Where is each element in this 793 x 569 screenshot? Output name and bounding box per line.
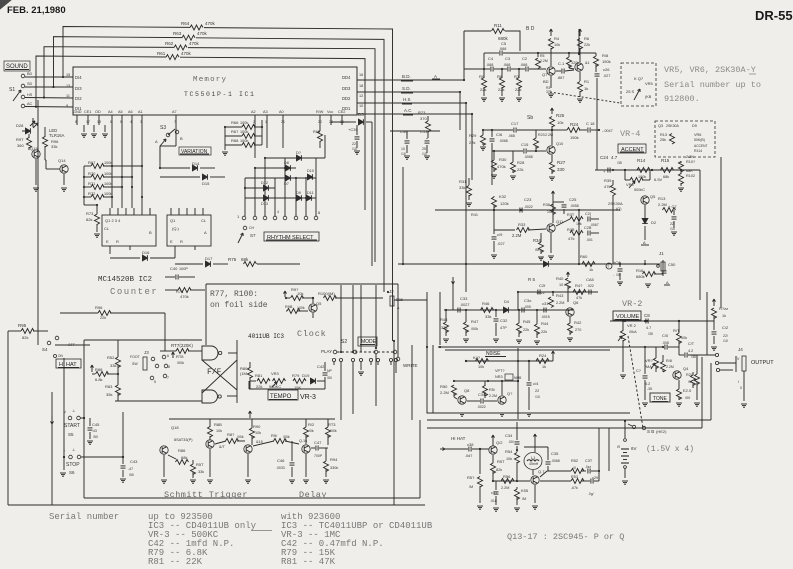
svg-text:R13: R13 [660, 133, 667, 137]
svg-text:Θ: Θ [617, 444, 620, 449]
svg-text:R81: R81 [255, 373, 263, 378]
label TEMPO VR-3 [268, 390, 298, 400]
svg-text:C/0: C/0 [662, 333, 669, 338]
ground r66 cluster [222, 151, 228, 153]
transistor Q12 [489, 446, 497, 454]
wire q7 emitter [534, 485, 536, 503]
svg-text:S7: S7 [250, 233, 256, 238]
svg-text:22k: 22k [541, 330, 547, 334]
wire l1 supply [534, 434, 536, 440]
svg-text:C.1: C.1 [558, 61, 565, 66]
ground memory gnd pins [83, 125, 85, 132]
svg-text:4.7: 4.7 [646, 326, 651, 330]
svg-text:100k: 100k [240, 121, 248, 125]
transistor Q5 [641, 196, 649, 204]
svg-text:17: 17 [86, 120, 90, 124]
svg-text:(1.5V x 4): (1.5V x 4) [646, 445, 694, 454]
svg-text:VR6: VR6 [694, 133, 701, 137]
svg-text:J3: J3 [144, 350, 149, 355]
svg-text:2.2M: 2.2M [512, 233, 522, 238]
ground c19 [491, 254, 497, 256]
svg-text:C2B: C2B [584, 226, 592, 230]
svg-text:R63: R63 [173, 31, 182, 36]
svg-text:R/8: R/8 [666, 359, 672, 363]
ground r73 [94, 233, 100, 235]
svg-text:R96: R96 [95, 305, 103, 310]
svg-text:&1: &1 [585, 61, 590, 65]
svg-text:R83: R83 [105, 384, 113, 389]
wire right vertical 700 [699, 170, 701, 300]
svg-text:/10: /10 [422, 152, 427, 156]
svg-text:R?zz: R?zz [719, 306, 728, 311]
svg-text:20: 20 [318, 120, 322, 124]
svg-text:.0d7: .0d7 [465, 454, 472, 458]
svg-text:E2.0: E2.0 [683, 388, 692, 393]
svg-text:A0: A0 [279, 110, 284, 114]
svg-text:A: A [666, 280, 669, 285]
wire bd misc [550, 76, 552, 88]
svg-text:FOOT: FOOT [130, 355, 141, 359]
circle T [606, 263, 612, 269]
mode contact row bottom [332, 358, 335, 361]
svg-text:WRITE: WRITE [403, 363, 418, 368]
wire DD bus SD [357, 91, 460, 93]
wire j4 contacts [719, 362, 736, 364]
svg-text:(KB: (KB [645, 95, 652, 99]
svg-text:D15: D15 [202, 181, 210, 186]
wire bus HS down [465, 103, 467, 292]
svg-text:DD3: DD3 [342, 86, 351, 91]
battery BT1 [624, 422, 626, 438]
svg-text:C/2: C/2 [722, 325, 729, 330]
ground r19 [694, 402, 700, 404]
svg-text:R1: R1 [584, 79, 590, 84]
svg-text:.0zz: .0zz [585, 465, 591, 469]
svg-text:7: 7 [174, 120, 176, 124]
svg-text:R/2: R/2 [308, 422, 315, 427]
svg-text:D5: D5 [358, 112, 364, 117]
svg-text:C17: C17 [511, 121, 519, 126]
diode D7 [286, 175, 291, 181]
svg-text:/50: /50 [93, 435, 98, 439]
svg-text:Q13: Q13 [30, 146, 38, 151]
svg-text:R16: R16 [636, 268, 644, 273]
svg-text:R42: R42 [574, 320, 582, 325]
wire noise rail [466, 360, 553, 362]
svg-text:100k: 100k [104, 172, 112, 176]
wire matrix row 168 [255, 167, 296, 169]
switch S4 [47, 341, 51, 345]
svg-text:E: E [170, 239, 173, 244]
svg-text:370: 370 [420, 116, 427, 121]
svg-text:F/F: F/F [207, 368, 222, 377]
svg-text:R4?: R4? [575, 283, 583, 288]
switch S8 [632, 425, 635, 428]
svg-text:R5: R5 [540, 54, 545, 58]
svg-text:5: 5 [154, 380, 156, 384]
wire bottom second line [8, 504, 425, 506]
svg-text:R94: R94 [330, 457, 338, 462]
svg-text:A1: A1 [138, 110, 143, 114]
svg-text:R100(/M): R100(/M) [318, 291, 335, 296]
svg-text:A7: A7 [172, 110, 177, 114]
ground bd section [481, 97, 487, 99]
svg-text:Q6: Q6 [573, 300, 579, 305]
svg-text:4: 4 [277, 210, 279, 214]
svg-text:VR 2: VR 2 [627, 323, 637, 328]
svg-text:C/T: C/T [688, 342, 695, 346]
svg-text:R44: R44 [541, 321, 549, 326]
svg-text:R66: R66 [231, 120, 239, 125]
svg-text:S6: S6 [69, 470, 75, 475]
transistor Q16 [302, 445, 310, 453]
svg-text:22: 22 [670, 222, 674, 226]
ground c12 [711, 346, 717, 348]
svg-text:Clock: Clock [297, 329, 327, 339]
svg-text:C34: C34 [505, 433, 513, 438]
svg-text:680k: 680k [636, 274, 645, 279]
svg-text:22k: 22k [469, 140, 475, 145]
svg-text:VR5, VR6, 2SK30A-Y: VR5, VR6, 2SK30A-Y [664, 65, 756, 75]
svg-text:/00k: /00k [283, 435, 290, 439]
svg-text:Q18: Q18 [171, 425, 179, 430]
svg-text:Q1: Q1 [170, 218, 176, 223]
svg-text:HI HAT: HI HAT [451, 436, 466, 441]
svg-text:22k: 22k [256, 384, 262, 389]
svg-text:100k: 100k [104, 182, 112, 186]
ground q13 q14 [33, 187, 39, 189]
svg-text:Q10: Q10 [556, 142, 563, 146]
svg-text:120k: 120k [500, 201, 509, 206]
wire hh out verticals [598, 428, 600, 481]
svg-text:-47: -47 [128, 467, 133, 471]
svg-text:2SK30A: 2SK30A [608, 201, 623, 206]
ground r94 [323, 479, 329, 481]
svg-text:BD: BD [543, 79, 549, 84]
svg-text:VR-3: VR-3 [300, 394, 316, 401]
svg-text:S3: S3 [160, 125, 166, 131]
svg-text:580KC: 580KC [269, 384, 281, 389]
transistor Q4 [673, 371, 681, 379]
svg-text:R15: R15 [661, 158, 670, 163]
svg-text:VR-4: VR-4 [620, 129, 640, 139]
svg-text:/00: /00 [685, 396, 690, 400]
svg-text:CA5: CA5 [586, 277, 595, 282]
svg-text:Q5: Q5 [650, 194, 656, 199]
svg-text:S1: S1 [9, 87, 15, 93]
svg-text:470k: 470k [189, 41, 200, 46]
svg-text:R77, R100:: R77, R100: [210, 290, 258, 299]
junction dots sweep [463, 79, 465, 81]
svg-text:S B: S B [647, 429, 654, 434]
ground c46 [289, 479, 295, 481]
wire memory address pins down [111, 125, 113, 208]
svg-text:/50: /50 [129, 473, 134, 477]
svg-text:/M: /M [535, 247, 539, 252]
wire lower-left box [83, 358, 85, 498]
wire j4 vertical feed [706, 292, 708, 355]
IC U2 counter box A [102, 215, 156, 246]
svg-text:8: 8 [75, 120, 77, 124]
diode D13 [264, 195, 269, 201]
wire j4 down [743, 371, 745, 401]
wire mid double bus right [710, 363, 712, 420]
svg-text:R81 -- 47K: R81 -- 47K [281, 557, 336, 567]
diode D12 [264, 185, 269, 191]
svg-text:R: R [180, 239, 183, 244]
svg-text:C15: C15 [521, 142, 529, 147]
svg-text:.0022: .0022 [477, 405, 486, 409]
svg-text:Sb: Sb [527, 115, 533, 121]
resistor R63 [182, 35, 195, 40]
wire noise supply arrow [552, 351, 554, 358]
transistor Q1 bd [575, 63, 583, 71]
svg-text:6V: 6V [631, 446, 637, 451]
svg-text:R6: R6 [584, 36, 590, 41]
transistor Q9 [498, 396, 506, 404]
svg-text:2.2M: 2.2M [666, 365, 674, 369]
svg-text:CL: CL [201, 218, 207, 223]
ground c9 [642, 402, 648, 404]
svg-text:(1M: (1M [240, 371, 247, 376]
svg-text:A2: A2 [251, 110, 256, 114]
svg-text:10k: 10k [554, 43, 560, 47]
svg-text:R9/: R9/ [271, 433, 278, 438]
diode D11 [307, 195, 312, 201]
svg-text:Q13-17 : 2SC945- P or Q: Q13-17 : 2SC945- P or Q [507, 532, 624, 542]
ground c43 [120, 478, 126, 480]
svg-text:21: 21 [281, 120, 285, 124]
wire ff bottom line [115, 400, 202, 402]
svg-text:470k: 470k [197, 31, 208, 36]
svg-text:2.2M: 2.2M [545, 133, 553, 137]
svg-text:.068: .068 [503, 63, 510, 67]
ground r34 q11 [538, 256, 544, 258]
svg-text:R: R [116, 239, 119, 244]
wire ac rail [435, 209, 620, 211]
svg-text:C32: C32 [500, 318, 508, 323]
ground r55 [514, 507, 520, 509]
svg-text:A6: A6 [128, 110, 133, 114]
svg-text:DR-55: DR-55 [755, 8, 793, 23]
svg-text:R45: R45 [523, 319, 531, 324]
svg-text:15: 15 [66, 73, 70, 77]
svg-text:22k: 22k [100, 316, 106, 320]
svg-text:R33: R33 [518, 222, 526, 227]
ground battery [622, 480, 628, 482]
svg-text:HS: HS [27, 93, 33, 97]
svg-text:D9: D9 [692, 124, 697, 128]
svg-text:C2f: C2f [539, 283, 546, 288]
svg-text:Q7: Q7 [542, 72, 548, 77]
svg-text:c/9: c/9 [497, 232, 503, 237]
svg-text:C13+: C13+ [420, 129, 430, 134]
svg-text:5: 5 [120, 120, 122, 124]
svg-text:C35: C35 [551, 451, 559, 456]
svg-text:10k: 10k [557, 120, 563, 125]
svg-text:I: I [738, 380, 739, 384]
svg-text:R4: R4 [554, 36, 560, 41]
svg-text:10k: 10k [478, 365, 484, 369]
svg-text:C3T: C3T [585, 459, 593, 463]
svg-text:C2: C2 [522, 56, 528, 61]
svg-text:R50: R50 [440, 384, 448, 389]
svg-text:J1: J1 [659, 251, 664, 256]
svg-text:BD: BD [27, 72, 33, 76]
diode D16 [110, 257, 140, 259]
ground r47 [463, 338, 469, 340]
svg-text:22k: 22k [480, 87, 486, 92]
svg-text:22: 22 [535, 389, 539, 393]
ground noise section [459, 412, 465, 414]
svg-text:.068: .068 [499, 47, 506, 51]
ground r102 [678, 187, 684, 189]
svg-text:22k: 22k [584, 43, 590, 47]
svg-text:R 5: R 5 [528, 277, 536, 282]
wire vr5 dashes [550, 92, 620, 103]
svg-text:Delay: Delay [299, 490, 327, 500]
wire x518 vertical [517, 348, 519, 419]
svg-text:45mH: 45mH [529, 462, 539, 466]
transistor Q13 [32, 150, 40, 158]
svg-text:.001: .001 [586, 238, 593, 242]
svg-text:R67: R67 [231, 129, 239, 134]
svg-text:.0027: .0027 [460, 303, 470, 307]
svg-text:2SK30A: 2SK30A [666, 124, 680, 128]
svg-text:R60: R60 [580, 254, 588, 259]
svg-text:R/W: R/W [316, 110, 324, 114]
svg-text:R25: R25 [556, 113, 565, 118]
svg-text:R46: R46 [482, 301, 490, 306]
svg-text:/35: /35 [691, 355, 696, 359]
IC U1 Memory TC5501P-1 box [73, 67, 357, 115]
svg-text:c26: c26 [603, 67, 610, 72]
svg-text:&/T: &/T [219, 445, 226, 449]
svg-text:Q14: Q14 [58, 158, 66, 163]
svg-text:S5: S5 [68, 432, 74, 437]
svg-text:A4: A4 [108, 110, 113, 114]
svg-text:K32: K32 [499, 194, 507, 199]
wire DD bus HS [357, 102, 466, 104]
wire j2 to bus [394, 299, 427, 301]
ground r59 [477, 505, 483, 507]
diode D9 [297, 195, 302, 201]
ground r45 [516, 339, 522, 341]
svg-text:.027: .027 [497, 241, 506, 246]
wire vertical x412 [411, 345, 413, 420]
svg-text:R14: R14 [637, 158, 646, 163]
svg-text:C8: C8 [644, 313, 650, 318]
svg-text:100k: 100k [240, 130, 248, 134]
svg-text:25 S: 25 S [626, 89, 635, 94]
transistor Q15s [244, 445, 252, 453]
svg-text:.43: .43 [92, 429, 97, 433]
svg-text:C42: C42 [317, 364, 325, 369]
svg-text:/10: /10 [535, 395, 540, 399]
svg-text:470k: 470k [181, 51, 192, 56]
wire mid vertical 372 [371, 122, 373, 266]
svg-text:100k: 100k [104, 161, 112, 165]
transistor Q10 [547, 146, 555, 154]
svg-text:NR3: NR3 [495, 375, 503, 379]
svg-text:C25: C25 [569, 197, 577, 202]
svg-text:START: START [64, 423, 80, 429]
svg-text:B.D.: B.D. [402, 74, 411, 79]
svg-text:/0kA: /0kA [629, 330, 637, 334]
svg-text:Q3: Q3 [658, 124, 663, 128]
svg-text:C34: C34 [478, 393, 485, 397]
wire S1 to memory pins [25, 76, 73, 78]
ground r29 [480, 146, 486, 148]
svg-text:D2: D2 [651, 220, 657, 225]
svg-text:K55: K55 [521, 488, 529, 493]
counter top pins [109, 208, 111, 215]
svg-text:/35: /35 [617, 161, 622, 165]
svg-text:912800.: 912800. [664, 94, 700, 104]
svg-text:68k: 68k [663, 175, 669, 179]
svg-text:R52: R52 [107, 355, 115, 360]
svg-text:R64: R64 [181, 21, 190, 26]
wire DD bus BD [357, 79, 464, 81]
svg-text:.867: .867 [557, 76, 564, 80]
wire mid vertical 403 [402, 167, 404, 264]
resistor R64 [190, 25, 203, 30]
switch J3 contacts [151, 357, 155, 361]
svg-text:RT3: RT3 [328, 422, 336, 427]
svg-text:D17: D17 [205, 256, 213, 261]
svg-text:Serial number: Serial number [49, 512, 119, 522]
ground r20 [676, 402, 682, 404]
svg-text:S.D.: S.D. [402, 86, 411, 91]
svg-text:c38: c38 [467, 442, 474, 447]
svg-text:R2/: R2/ [686, 373, 693, 377]
wire tt upper feedback [518, 291, 598, 293]
ground r48 [443, 338, 449, 340]
ground c7 d2 [671, 231, 677, 233]
svg-text:R23: R23 [538, 133, 545, 137]
svg-text:A3: A3 [263, 110, 268, 114]
svg-text:D11: D11 [307, 191, 314, 195]
wire matrix row 188 [245, 187, 275, 189]
transistor Q17 [206, 440, 214, 448]
svg-text:A5: A5 [118, 110, 123, 114]
transistor Q15 [309, 304, 317, 312]
svg-text:+ C7: + C7 [668, 204, 677, 209]
wire stop to c43 [81, 456, 123, 458]
svg-text:D10: D10 [307, 169, 314, 173]
svg-text:♪: ♪ [64, 409, 66, 414]
svg-text:A: A [155, 139, 158, 144]
svg-text:6: 6 [167, 354, 169, 358]
wire lower-left box vertical right [393, 341, 395, 505]
svg-text:D28: D28 [16, 123, 24, 128]
svg-text:/35: /35 [648, 332, 653, 336]
diode D14 tempo [311, 378, 316, 384]
svg-text:8: 8 [168, 365, 170, 369]
svg-text:R90: R90 [253, 424, 261, 429]
svg-text:VPT?: VPT? [495, 369, 505, 373]
svg-text:.068: .068 [486, 63, 493, 67]
svg-text:R27: R27 [557, 160, 566, 165]
svg-text:22k: 22k [515, 87, 521, 92]
svg-text:A: A [204, 230, 207, 235]
svg-text:.0g/: .0g/ [588, 492, 594, 496]
svg-text:CE1: CE1 [84, 110, 91, 114]
wire left edge vertical to stop [7, 331, 9, 505]
dashed box VR6 [655, 121, 715, 157]
svg-text:/M: /M [469, 485, 473, 489]
svg-text:R102: R102 [686, 174, 695, 178]
